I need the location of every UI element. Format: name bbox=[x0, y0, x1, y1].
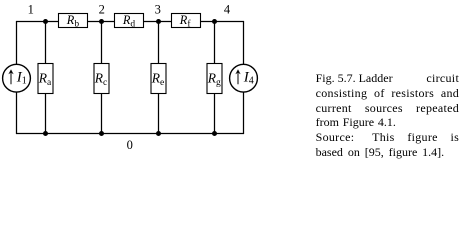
svg-text:1: 1 bbox=[28, 3, 34, 17]
svg-text:2: 2 bbox=[99, 3, 105, 17]
svg-text:0: 0 bbox=[127, 138, 133, 152]
svg-text:3: 3 bbox=[155, 3, 161, 17]
svg-text:4: 4 bbox=[224, 3, 231, 17]
